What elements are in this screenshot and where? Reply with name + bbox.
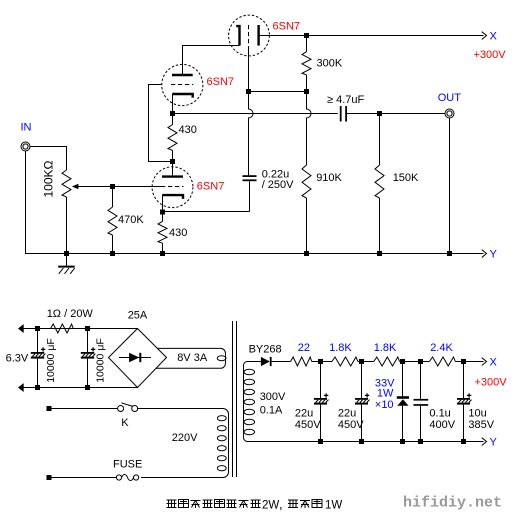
transformer 220V primary winding (228, 414, 230, 472)
X rail arrow (482, 32, 487, 40)
transformer core (233, 321, 237, 477)
diode BY268 (248, 361, 261, 363)
wire bridge to 8V winding top (157, 348, 225, 353)
6.3V output arrow top (18, 324, 24, 333)
svg-text:1W: 1W (377, 388, 394, 400)
junction dot 910K bottom (304, 251, 309, 256)
svg-text:FUSE: FUSE (113, 459, 142, 471)
svg-text:450V: 450V (295, 419, 321, 431)
switch K (118, 406, 124, 412)
wire C1 bottom to V3 cathode (163, 211, 250, 213)
resistor 1 ohm 20W (51, 324, 74, 333)
junction dot rail 10u (461, 439, 466, 444)
tube V3 plate (162, 175, 183, 177)
svg-text:6SN7: 6SN7 (197, 181, 225, 193)
tube V1 plate lead / wire to X rail (259, 35, 484, 37)
svg-text:1.8K: 1.8K (329, 342, 352, 354)
transformer 300V secondary winding lead bottom (244, 438, 248, 442)
capacitor C1 0.22u/250V plates (243, 175, 257, 177)
svg-text:150K: 150K (393, 172, 419, 184)
junction dots cap2 (85, 326, 90, 331)
transformer 300V secondary winding (243, 366, 245, 439)
junction dot rail 22u#2 (359, 439, 364, 444)
capacitor 10000uF #2 (81, 352, 94, 354)
svg-text:+300V: +300V (475, 377, 508, 389)
svg-text:470K: 470K (118, 214, 144, 226)
svg-text:≥ 4.7uF: ≥ 4.7uF (327, 94, 365, 106)
junction dot wiper/470K (110, 184, 115, 189)
potentiometer wiper arrow (72, 184, 79, 190)
wire V2 cathode node to coupling cap (173, 113, 338, 115)
resistor 430 lower (V3 cathode) (158, 221, 167, 243)
wire mains bottom left (49, 477, 116, 479)
svg-text:1W: 1W (325, 500, 342, 512)
svg-text:6SN7: 6SN7 (207, 76, 235, 88)
wire V1 cathode to V2 plate (183, 46, 240, 65)
wire wiper to V3 grid (78, 186, 161, 188)
wire IN jack to pot top (30, 147, 67, 171)
wire psu ground rail (248, 441, 484, 443)
svg-text:Y: Y (490, 437, 498, 449)
svg-text:430: 430 (169, 227, 187, 239)
tube V3 grid (dashed) (161, 186, 184, 188)
wire fuse to primary bottom (141, 472, 229, 478)
bridge rectifier 25A diamond (109, 329, 167, 388)
svg-text:0.1u: 0.1u (429, 408, 450, 420)
resistor 910K (302, 165, 311, 198)
svg-text:430: 430 (179, 124, 197, 136)
svg-text:BY268: BY268 (249, 344, 282, 356)
IN jack (21, 142, 30, 151)
capacitor C1 leads (249, 181, 251, 211)
resistor 150K (375, 165, 384, 198)
capacitor 10u/385V (457, 398, 470, 400)
wire mains top left (49, 408, 118, 410)
svg-text:0.1A: 0.1A (260, 405, 283, 417)
junction dot 150K bottom (377, 251, 382, 256)
svg-text:100KΩ: 100KΩ (42, 160, 56, 197)
svg-text:910K: 910K (316, 172, 342, 184)
tube V2 plate (172, 74, 193, 76)
svg-text:Y: Y (490, 249, 498, 261)
junction dot node B (V3 plate) (170, 159, 175, 164)
svg-text:10u: 10u (468, 408, 486, 420)
fuse FUSE (116, 475, 121, 480)
wire node1-node2 (321, 361, 332, 363)
capacitor 0.1u/400V (414, 399, 429, 401)
svg-text:400V: 400V (429, 419, 455, 431)
svg-text:×10: ×10 (375, 399, 394, 411)
svg-text:/ 250V: / 250V (262, 179, 294, 191)
6.3V output arrow bottom (18, 383, 24, 392)
capacitor 22u/450V #2 (355, 398, 368, 400)
transformer 8V 3A winding (225, 353, 227, 363)
zener 33V 1W x10 (402, 362, 404, 442)
resistor 1.8K second (374, 357, 400, 366)
svg-text:6SN7: 6SN7 (273, 21, 301, 33)
tube V1 envelope (6SN7 top section) (229, 15, 270, 56)
svg-text:hifidiy.net: hifidiy.net (403, 495, 502, 512)
resistor 2.4K (429, 357, 455, 366)
Y rail arrow (top half) (482, 250, 487, 258)
junction dot 430 bottom (160, 251, 165, 256)
wire V1 grid down to C1 with hop (249, 92, 254, 176)
svg-text:OUT: OUT (438, 92, 462, 104)
terminal square mains bottom (47, 475, 52, 480)
junction dot filter node 4 (0.1u) (418, 359, 423, 364)
junction dot 150K top (377, 111, 382, 116)
junction dot 470K bottom (110, 251, 115, 256)
junction dot at V1 grid (246, 89, 251, 94)
junction dot V3 cathode node (160, 210, 165, 215)
junction dot V2 cathode node (170, 111, 175, 116)
tube V2 cathode (172, 94, 193, 98)
note text: blue resistors 2W others 1W (167, 500, 177, 508)
OUT jack (445, 109, 454, 118)
junction dots cap1 (35, 326, 40, 331)
tube V2 plate lead (182, 65, 184, 76)
tube V2 cathode lead (172, 94, 174, 114)
terminal square mains top (47, 406, 52, 411)
transformer 300V secondary winding lead top (244, 362, 248, 366)
resistor 1.8K first (332, 357, 358, 366)
wire switch to primary top (137, 409, 229, 415)
svg-text:220V: 220V (172, 432, 198, 444)
wire heater top (23, 328, 138, 330)
svg-text:X: X (490, 31, 498, 43)
svg-text:300K: 300K (317, 58, 343, 70)
tube V1 grid lead (248, 46, 250, 92)
svg-text:385V: 385V (468, 419, 494, 431)
svg-text:1Ω / 20W: 1Ω / 20W (47, 308, 94, 320)
resistor 300K (302, 52, 311, 75)
svg-text:22u: 22u (295, 408, 313, 420)
svg-text:25A: 25A (128, 310, 148, 322)
tube V3 cathode (162, 195, 183, 199)
tube V3 grid lead (78, 186, 153, 188)
X rail arrow (psu) (482, 358, 487, 366)
svg-text:8V 3A: 8V 3A (177, 352, 208, 364)
junction dot filter node 3 (zener) (400, 359, 405, 364)
wire OUT jack down to Y rail (449, 118, 451, 254)
svg-text:1.8K: 1.8K (374, 342, 397, 354)
tube V2 grid (dashed) (171, 84, 193, 86)
junction dot at 300K bottom (304, 89, 309, 94)
wire bridge to 8V winding bottom (156, 363, 226, 368)
svg-text:K: K (121, 417, 129, 429)
svg-text:IN: IN (21, 122, 32, 134)
tube V1 cathode (236, 26, 239, 45)
wire IN jack down to ground rail (26, 151, 67, 254)
resistor 22 (2W blue) (291, 357, 312, 366)
wire 300K bottom to 910K with hop (307, 92, 312, 166)
tube V3 envelope (6SN7 bottom section) (152, 167, 193, 208)
wire V1 grid to 300K bottom (249, 91, 307, 93)
resistor 430 upper (V2 cathode) (168, 125, 177, 151)
tube V2 envelope (6SN7 middle section) (162, 64, 203, 105)
capacitor 10000uF #1 (31, 352, 44, 354)
capacitor 4.7uF plates (340, 106, 342, 122)
svg-text:2W: 2W (262, 500, 279, 512)
junction dot 300K top on X rail (304, 33, 309, 38)
junction dot filter node 5 (10u) (461, 359, 466, 364)
resistor 470K (108, 207, 117, 235)
wire ground rail (top half Y) (26, 253, 484, 255)
tube V3 cathode lead (162, 195, 164, 212)
wire heater bottom (23, 387, 138, 389)
wire 2.4K to X (455, 361, 483, 363)
tube V2 grid lead wire to node B (149, 85, 171, 162)
junction dot rail 22u#1 (318, 439, 323, 444)
Y rail arrow (psu) (482, 438, 487, 446)
svg-text:10000 μF: 10000 μF (45, 338, 57, 383)
svg-text:300V: 300V (260, 391, 286, 403)
wire node3 segment (400, 361, 430, 363)
junction dot filter node 1 (318, 359, 323, 364)
wire cap 4.7uF right to OUT (347, 113, 445, 115)
tube V3 plate lead (172, 162, 174, 177)
tube V1 plate (257, 25, 259, 46)
junction dot rail zener (400, 439, 405, 444)
tube V1 grid (dashed) (248, 25, 250, 46)
svg-text:6.3V: 6.3V (6, 353, 29, 365)
svg-text:,: , (279, 497, 283, 512)
bridge internal diode (119, 357, 151, 359)
ground (66, 254, 68, 267)
junction dot pot bottom (64, 251, 69, 256)
svg-text:2.4K: 2.4K (430, 342, 453, 354)
svg-text:+300V: +300V (474, 49, 507, 61)
capacitor 22u/450V #1 (314, 398, 327, 400)
wire 1.8K-node2 (358, 361, 374, 363)
junction dot OUT bottom (447, 251, 452, 256)
svg-text:22u: 22u (338, 408, 356, 420)
svg-text:10000 μF: 10000 μF (95, 338, 107, 383)
svg-text:22: 22 (298, 342, 310, 354)
svg-text:450V: 450V (338, 419, 364, 431)
potentiometer 100K ohm (62, 170, 71, 197)
svg-text:X: X (490, 357, 498, 369)
junction dot rail 0.1u (418, 439, 423, 444)
junction dot filter node 2 (359, 359, 364, 364)
